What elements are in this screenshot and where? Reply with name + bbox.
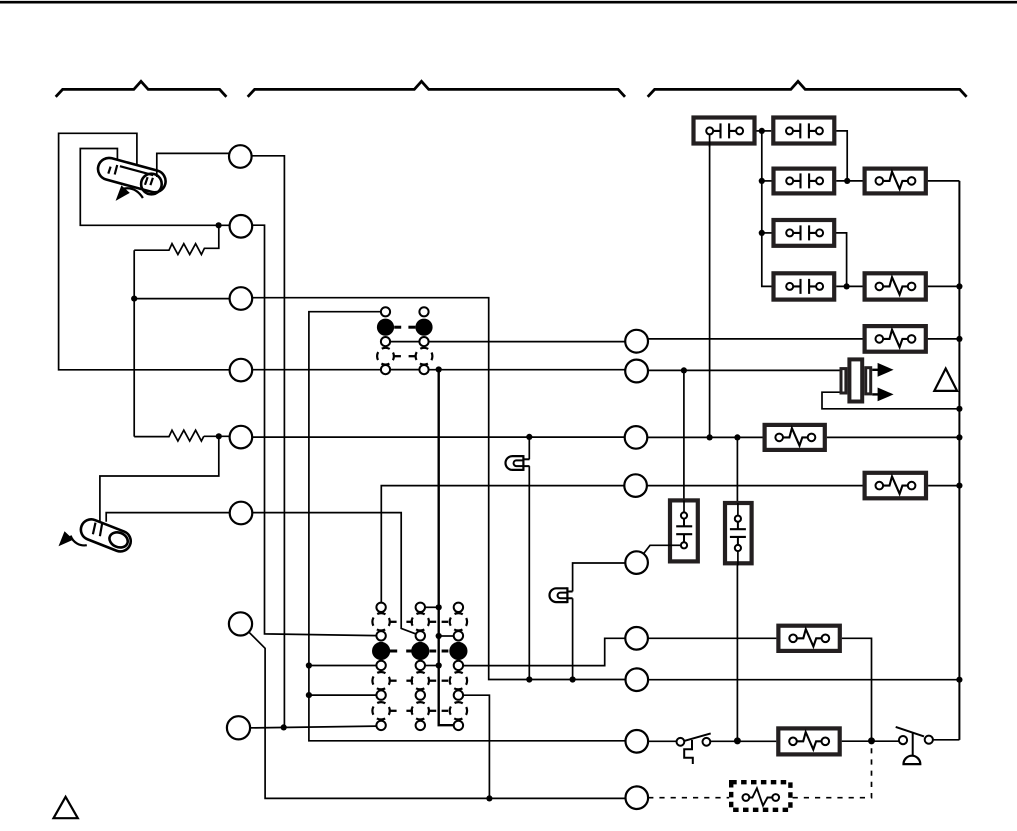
- connector R5: [625, 551, 648, 574]
- connector R3: [625, 426, 648, 449]
- node right bus row R4: [956, 483, 962, 489]
- node row R3 relay V2 feed: [734, 434, 740, 440]
- fuse box G: [865, 273, 926, 299]
- wire branch to lower bulb col3 pin2: [439, 635, 454, 637]
- wire upper bulb block pin link: [390, 369, 419, 371]
- wire connector C7 diagonal, down bus to row of R9: [249, 632, 626, 799]
- wire resistor R2 right lead to connector C5: [204, 435, 230, 437]
- wire flasher unit bottom return to right bus: [822, 392, 959, 409]
- wire branch to switch box C: [762, 180, 772, 182]
- node between switch boxes A and B: [759, 128, 765, 134]
- wire branch to lower bulb col2 pin1: [425, 606, 439, 608]
- node row R3 switch box A pin: [707, 434, 713, 440]
- wire connector R6 to fuse box K: [648, 637, 777, 639]
- bulb B2 (indicator lamp): [550, 587, 573, 603]
- node lower bulb col1 pin3 branch: [306, 662, 312, 668]
- wire node under R2 down-left to kill key: [100, 436, 219, 521]
- lower bulb block: lamp Q3 column: [449, 603, 467, 731]
- wire fuse box J to right bus: [928, 485, 959, 487]
- node lower bulb col2 pin3 branch: [436, 662, 442, 668]
- connector C2: [230, 215, 253, 238]
- wire fuse box I to right bus: [827, 436, 960, 438]
- connector R8: [626, 730, 649, 753]
- ignition key (main switch): [96, 155, 169, 194]
- connector C5: [230, 426, 253, 449]
- resistor R1: [134, 225, 219, 254]
- wire connector C8 to lower bulb col1 pin5: [250, 726, 377, 728]
- wire connector R7 to right bus: [648, 679, 959, 681]
- node lower bulb col3 pin2 branch: [436, 633, 442, 639]
- node at row C right of box: [844, 178, 850, 184]
- fuse box K: [778, 626, 839, 651]
- node lower bulb col2 pin1 branch: [436, 604, 442, 610]
- node row R7 below bulb B1: [526, 676, 532, 682]
- relay V1 (starter relay): [668, 500, 698, 561]
- wire upper bulb col1 top feed down to row of R4: [381, 486, 624, 603]
- node left of C3: [131, 296, 137, 302]
- wire fuse box G to right bus: [928, 285, 960, 287]
- right bus vertical: [958, 181, 960, 740]
- node at switch box C left: [759, 178, 765, 184]
- wire branch to switch box D: [762, 232, 772, 234]
- wire connector R5 left to bulb B2: [573, 563, 626, 592]
- wire connector R8 to brake switch: [648, 740, 676, 742]
- node at switch box D left: [759, 230, 765, 236]
- node on bottom row R9: [486, 795, 492, 801]
- connector R1: [625, 330, 648, 353]
- wire row C5 to connector R3: [253, 436, 625, 438]
- wire relay V2 bottom pin down to row R8: [736, 551, 738, 741]
- brace group 2 (middle): [248, 81, 625, 97]
- connector R6: [625, 627, 648, 650]
- kill key (lower): [78, 516, 134, 554]
- wire branch to lower bulb col1 pin3: [309, 665, 377, 667]
- node row C5 above bulb B1: [526, 434, 532, 440]
- wire fuse box K right, down to row R8: [842, 638, 872, 741]
- wire bulb B1 down to row of R7: [528, 466, 530, 679]
- node right bus row R3: [956, 434, 962, 440]
- triangle marker 1: [934, 369, 957, 391]
- connector C1: [229, 145, 252, 168]
- wire ignition-switch inner loop to connector C2: [80, 149, 229, 226]
- resistor R2: [134, 430, 204, 441]
- node right bus flasher return: [956, 406, 962, 412]
- wire relay V1 bottom pin to connector R5: [644, 545, 681, 553]
- connector R2: [625, 360, 648, 383]
- wire fuse box L to horn switch: [842, 740, 899, 742]
- node row R7 below bulb B2: [570, 676, 576, 682]
- node on row C8: [281, 724, 287, 730]
- node right bus row G: [956, 283, 962, 289]
- wire switch box C to fuse box E: [836, 180, 863, 182]
- node row R8 right of fuse box L: [868, 737, 875, 744]
- wire resistor R1 left lead vertical: [133, 250, 135, 436]
- relay V2 (horn relay): [725, 503, 752, 566]
- wire fuse box H to right bus: [928, 338, 960, 340]
- lower bulb block link dashes: [390, 622, 448, 711]
- brace group 3 (right): [648, 81, 967, 97]
- brake switch (row R8): [677, 733, 711, 764]
- connector R9: [626, 786, 649, 809]
- switch box D: [774, 220, 835, 246]
- wire kill key to connector C6: [106, 513, 230, 522]
- node on wire at R1 left of C2: [216, 222, 222, 228]
- lower bulb block: lamp Q1 column: [372, 603, 390, 731]
- upper bulb block: lamp P2 column: [415, 307, 432, 374]
- connector C8: [227, 716, 250, 739]
- upper bulb block: lamp P1 column: [377, 307, 394, 374]
- wire connector R4 to fuse box J: [647, 485, 862, 487]
- wire upper bulb block top pin feed, down-bus to row of R8: [309, 312, 626, 741]
- ignition key rotate arrow: [124, 188, 143, 198]
- page top rule: [0, 1, 1017, 4]
- wire switch box A to switch box B: [756, 130, 771, 132]
- fuse box E: [865, 169, 926, 194]
- wire ignition key bow to connector C1: [157, 153, 229, 177]
- fuse box L: [778, 728, 839, 754]
- lower bulb block: lamp Q2 column: [411, 603, 429, 731]
- triangle marker 2: [54, 797, 78, 818]
- wire lower bulb col3 pin3 jog to connector R6: [463, 638, 625, 665]
- connector R4: [624, 474, 647, 497]
- wire horn switch to right bus bottom: [933, 739, 960, 741]
- wire bulb B2 down to row of R7: [572, 598, 574, 679]
- wire connector R3 to fuse box I: [647, 436, 762, 438]
- connector C6: [230, 502, 253, 525]
- flasher unit: [841, 359, 894, 401]
- wire branch to lower bulb col2 pin3: [425, 665, 439, 667]
- wire brake switch to fuse box L: [710, 740, 776, 742]
- wire switch box F to fuse box G: [836, 285, 863, 287]
- switch box C: [774, 169, 835, 194]
- wire switch box B right, down to row of box C: [836, 131, 847, 181]
- node upper bulb block row R2: [436, 366, 442, 372]
- connector C3: [230, 287, 253, 310]
- node left of C5: [216, 433, 222, 439]
- wire relay V2 top pin from node on row R3: [736, 438, 738, 516]
- wire switch box D right, down to row of box F: [836, 233, 847, 287]
- dashed fuse box M: [731, 782, 790, 810]
- wire connector C4 to upper bulb block pins: [252, 369, 380, 371]
- connector C4: [230, 359, 253, 382]
- node right bus row R7: [956, 677, 962, 683]
- dashed wire dashed fuse box M up to node on row R8: [793, 745, 872, 798]
- wire upper bulb block to connector R2: [429, 369, 626, 371]
- node right bus row H: [956, 336, 962, 342]
- dashed wire connector R9 to dashed fuse box M: [648, 797, 729, 799]
- upper bulb block link dashes: [394, 327, 415, 356]
- wire relay V1 top pin from node on row R2: [683, 370, 685, 512]
- kill key rotate arrow: [71, 536, 87, 546]
- wire switch box A bottom pin down to row R3: [709, 145, 711, 437]
- wire connector C2 right, down to lower bulb block col1 pin2: [252, 225, 376, 635]
- bulb B1 (indicator lamp): [506, 455, 530, 471]
- fuse box I: [765, 425, 825, 450]
- wire connector C1 right, down bus to row of C8: [252, 156, 285, 728]
- wire center bus between lower bulb columns: [439, 370, 454, 726]
- wire branch to lower bulb col1 pin4: [309, 694, 377, 696]
- switch box A: [694, 118, 755, 148]
- wire lower bulb col3 pin4 down to bottom row node: [463, 695, 489, 798]
- wire connector R1 to fuse box H: [648, 338, 863, 340]
- wire upper bulb block pin2 to connector R1: [429, 341, 626, 343]
- horn switch (row R8): [896, 727, 933, 764]
- wire node on row C5 down to bulb B1: [528, 437, 530, 459]
- wire fuse box E to right bus top: [928, 180, 960, 182]
- switch box F: [774, 273, 835, 299]
- fuse box H: [865, 326, 926, 352]
- connector R7: [626, 668, 649, 691]
- wire left bus of switch boxes B,C,D,F: [762, 131, 772, 287]
- wire ignition-switch outer loop to connector C4: [59, 133, 230, 369]
- node row R8 relay V2 bottom: [734, 737, 741, 744]
- switch box B: [773, 118, 834, 144]
- wire connector C6 right, down to lower bulb col2 pin2: [253, 513, 419, 635]
- wire upper bulb block pin2 link: [390, 341, 419, 343]
- wire row R2 to flasher unit: [648, 369, 840, 371]
- node row R2 relay V1 feed: [681, 367, 687, 373]
- wire connector C3 right, down to row of R7: [252, 298, 625, 680]
- fuse box J: [865, 473, 926, 499]
- connector C7: [229, 612, 252, 635]
- brace group 1 (left): [56, 81, 227, 97]
- node at row F right of box: [844, 283, 850, 289]
- wire node to connector C3: [134, 298, 229, 300]
- node lower bulb col1 pin4 branch: [306, 692, 312, 698]
